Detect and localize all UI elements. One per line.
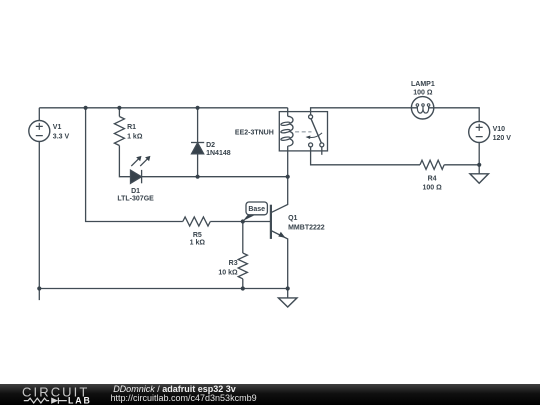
svg-text:1 kΩ: 1 kΩ — [190, 240, 206, 247]
wire ground lead at emitter — [287, 289, 289, 298]
wire bottom ground rail — [39, 288, 287, 290]
svg-text:LAB: LAB — [68, 395, 92, 405]
svg-text:V1: V1 — [53, 124, 62, 131]
svg-text:LTL-307GE: LTL-307GE — [117, 195, 154, 202]
wire R5 branch vertical and left lead — [86, 108, 183, 222]
wire R1 bottom to LED anode — [119, 146, 130, 177]
svg-text:R4: R4 — [428, 176, 437, 183]
lamp LAMP1 — [411, 97, 433, 119]
svg-text:1 kΩ: 1 kΩ — [127, 134, 143, 141]
resistor R5 — [183, 217, 211, 226]
junction node coil bottom / collector — [286, 175, 290, 179]
voltage source V10 — [469, 122, 490, 143]
wire relay coil top entry — [287, 108, 289, 117]
junction node Base / R5 / R3 — [241, 219, 245, 223]
svg-text:LAMP1: LAMP1 — [411, 81, 435, 88]
diode D2 — [191, 143, 204, 154]
relay actuation arrow — [306, 133, 323, 139]
wire Q1 emitter — [271, 231, 288, 289]
ground bottom — [278, 298, 297, 307]
Base flag — [243, 202, 268, 221]
wire relay NC stub — [321, 147, 323, 155]
svg-text:D2: D2 — [206, 142, 215, 149]
relay linkage dashed line — [295, 131, 311, 133]
svg-text:EE2-3TNUH: EE2-3TNUH — [235, 129, 274, 136]
transistor Q1 — [271, 205, 286, 239]
svg-text:Q1: Q1 — [288, 215, 297, 222]
wire Q1 collector — [271, 177, 288, 213]
junction node ground rail / emitter — [286, 286, 290, 290]
relay coil — [281, 116, 293, 146]
wire relay switch common to lamp — [311, 108, 412, 115]
junction node 3.3V rail / R1 branch — [117, 106, 121, 110]
relay switch arm — [311, 119, 321, 143]
wire R1 top lead — [118, 108, 120, 117]
wire relay NO pin to R4 — [311, 147, 420, 165]
resistor R1 — [114, 117, 124, 146]
wire D2 top lead — [197, 108, 199, 143]
wire R3 bottom lead — [242, 279, 244, 289]
resistor R4 — [420, 160, 444, 169]
relay pin circles — [309, 115, 324, 147]
wire V1 top lead — [38, 108, 40, 121]
svg-text:D1: D1 — [131, 188, 140, 195]
svg-text:120 V: 120 V — [493, 135, 512, 142]
junction node ground rail / V1 — [37, 286, 41, 290]
svg-text:3.3 V: 3.3 V — [53, 134, 70, 141]
svg-text:http://circuitlab.com/c47d3n53: http://circuitlab.com/c47d3n53kcmb9 — [111, 393, 257, 403]
wire V10 bottom to ground — [478, 143, 480, 174]
svg-text:R5: R5 — [193, 232, 202, 239]
svg-text:100 Ω: 100 Ω — [422, 184, 442, 191]
junction node ground rail / R3 — [241, 286, 245, 290]
wire R3 top lead — [242, 222, 244, 254]
wire LED cathode middle rail — [142, 176, 288, 178]
wire relay coil bottom exit — [287, 146, 289, 177]
wire lamp to V10 — [434, 108, 479, 122]
svg-text:100 Ω: 100 Ω — [413, 89, 433, 96]
ground right — [470, 174, 489, 184]
relay EE2-3TNUH box — [279, 112, 327, 151]
junction node 3.3V rail / D2 cathode — [196, 106, 200, 110]
junction node 3.3V rail / R5 branch — [84, 106, 88, 110]
wire R4 right lead — [444, 164, 479, 166]
svg-text:R3: R3 — [229, 260, 238, 267]
svg-text:10 kΩ: 10 kΩ — [218, 270, 238, 277]
LED D1 — [131, 156, 151, 183]
footer bar — [0, 384, 540, 405]
logo resistor-diode glyph — [24, 398, 67, 404]
resistor R3 — [238, 253, 247, 279]
svg-text:V10: V10 — [493, 126, 506, 133]
wire top rail 3.3V net — [39, 107, 287, 109]
voltage source V1 — [29, 121, 50, 142]
svg-text:Base: Base — [248, 206, 265, 213]
svg-text:MMBT2222: MMBT2222 — [288, 225, 325, 232]
svg-text:1N4148: 1N4148 — [206, 150, 231, 157]
junction node coil rail / D2 anode — [196, 175, 200, 179]
wire R5 right lead to Q1 base — [210, 221, 271, 223]
svg-text:R1: R1 — [127, 124, 136, 131]
wire V1 bottom stub — [38, 142, 40, 301]
junction node V10 negative / R4 / ground — [477, 163, 481, 167]
wire D2 bottom lead — [197, 154, 199, 177]
